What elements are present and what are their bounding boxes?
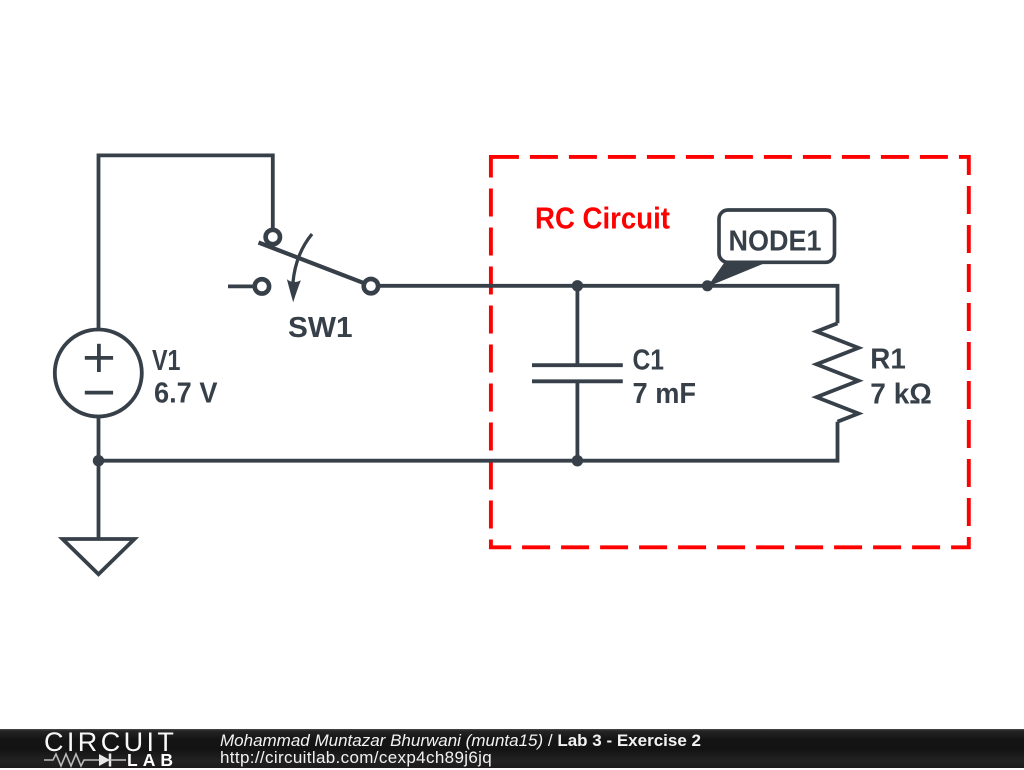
switch SW1: [255, 230, 378, 302]
wire bottom rail: [99, 422, 838, 461]
footer title text: [220, 732, 701, 749]
wire capacitor bottom stub: [576, 382, 580, 461]
svg-text:C1: C1: [633, 345, 665, 377]
svg-text:7 kΩ: 7 kΩ: [870, 379, 932, 411]
ground: [63, 539, 135, 574]
voltage source V1: [55, 330, 142, 417]
junction dot capacitor bottom: [572, 455, 583, 466]
annotation box RC Circuit: [491, 157, 969, 547]
wire switch open stub: [228, 284, 254, 288]
svg-text:R1: R1: [870, 344, 906, 376]
junction dot V1 bottom: [93, 455, 104, 466]
footer bar: [0, 729, 1024, 768]
CircuitLab logo wordmark CIRCUIT: [44, 729, 177, 756]
wire V1 bottom to ground: [97, 414, 101, 539]
label V1 6.7 V: [152, 345, 218, 410]
svg-text:V1: V1: [152, 345, 181, 377]
node NODE1 dot: [702, 280, 713, 291]
footer url text: [220, 749, 492, 766]
svg-text:SW1: SW1: [288, 312, 353, 344]
label R1 7 kOhm: [870, 344, 932, 411]
svg-text:NODE1: NODE1: [729, 226, 822, 258]
wire main node rail: [371, 286, 838, 324]
CircuitLab logo wordmark LAB: [127, 754, 178, 767]
capacitor C1: [532, 365, 623, 381]
wire top-left loop: [99, 155, 273, 332]
junction dot capacitor top: [572, 280, 583, 291]
wire capacitor top stub: [576, 286, 580, 365]
label C1 7 mF: [633, 345, 697, 411]
CircuitLab logo resistor-diode glyph: [44, 752, 134, 768]
svg-text:7 mF: 7 mF: [633, 378, 697, 410]
resistor R1: [817, 323, 859, 421]
svg-text:RC Circuit: RC Circuit: [535, 202, 670, 236]
callout NODE1: [707, 210, 834, 287]
svg-text:6.7 V: 6.7 V: [154, 378, 218, 410]
